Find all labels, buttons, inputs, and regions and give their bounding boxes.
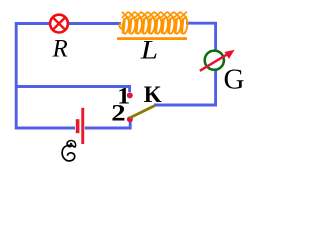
lamp R (circle with X) <box>50 15 68 33</box>
battery negative plate (short thick) <box>76 119 80 133</box>
wire: top segment between lamp R and inductor L <box>69 22 122 25</box>
galvanometer G needle arrow <box>200 50 235 71</box>
svg-text:G: G <box>224 64 245 96</box>
label G <box>224 64 245 96</box>
switch contact 1 (red dot) <box>127 92 133 98</box>
battery positive plate (long thin) <box>81 108 84 144</box>
label K <box>144 82 162 107</box>
label 1 <box>117 84 130 109</box>
inductor L top crossing X band <box>122 12 187 18</box>
wire: right rail below galvanometer, bottom-right corner, to switch blade <box>154 71 216 106</box>
inductor L coil turns <box>122 18 189 35</box>
label 2 <box>111 100 125 126</box>
switch K blade (olive) from contact 2 to right wire <box>130 106 156 119</box>
battery EMF label (script E) <box>62 140 75 160</box>
svg-text:K: K <box>144 82 162 107</box>
label R <box>52 36 68 63</box>
svg-text:2: 2 <box>111 100 125 126</box>
wire: middle branch from left rail to switch contact 1 <box>16 87 130 93</box>
svg-text:L: L <box>140 36 158 65</box>
inductor L core line <box>117 37 187 40</box>
inductor L lead-in curl <box>119 23 121 29</box>
switch contact 2 (red dot) <box>127 116 133 122</box>
wire: from battery right plate to switch contact 2 <box>85 121 130 128</box>
wire: top segment from inductor L to top-right corner and right rail down to galvanometer <box>186 23 216 50</box>
wire: top-left horizontal (lamp to top-left corner) + left rail + bottom wire to battery <box>16 24 75 129</box>
svg-text:R: R <box>52 36 68 63</box>
galvanometer G circle <box>205 51 224 70</box>
label L <box>140 36 158 65</box>
